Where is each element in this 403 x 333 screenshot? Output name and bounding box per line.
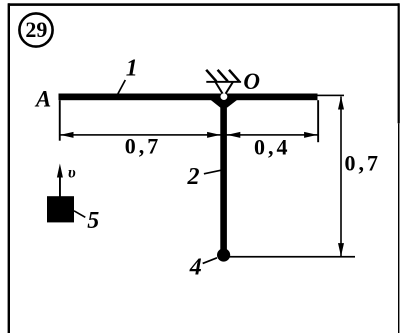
svg-text:29: 29 bbox=[25, 17, 47, 42]
svg-text:0,7: 0,7 bbox=[344, 151, 381, 176]
svg-text:4: 4 bbox=[189, 255, 202, 281]
svg-text:5: 5 bbox=[87, 208, 99, 234]
svg-text:A: A bbox=[34, 87, 51, 112]
svg-text:0,7: 0,7 bbox=[125, 133, 162, 158]
svg-text:O: O bbox=[243, 69, 260, 94]
svg-text:1: 1 bbox=[126, 55, 138, 81]
svg-text:0,4: 0,4 bbox=[254, 135, 291, 160]
svg-text:υ: υ bbox=[68, 165, 76, 182]
svg-text:2: 2 bbox=[187, 164, 200, 190]
